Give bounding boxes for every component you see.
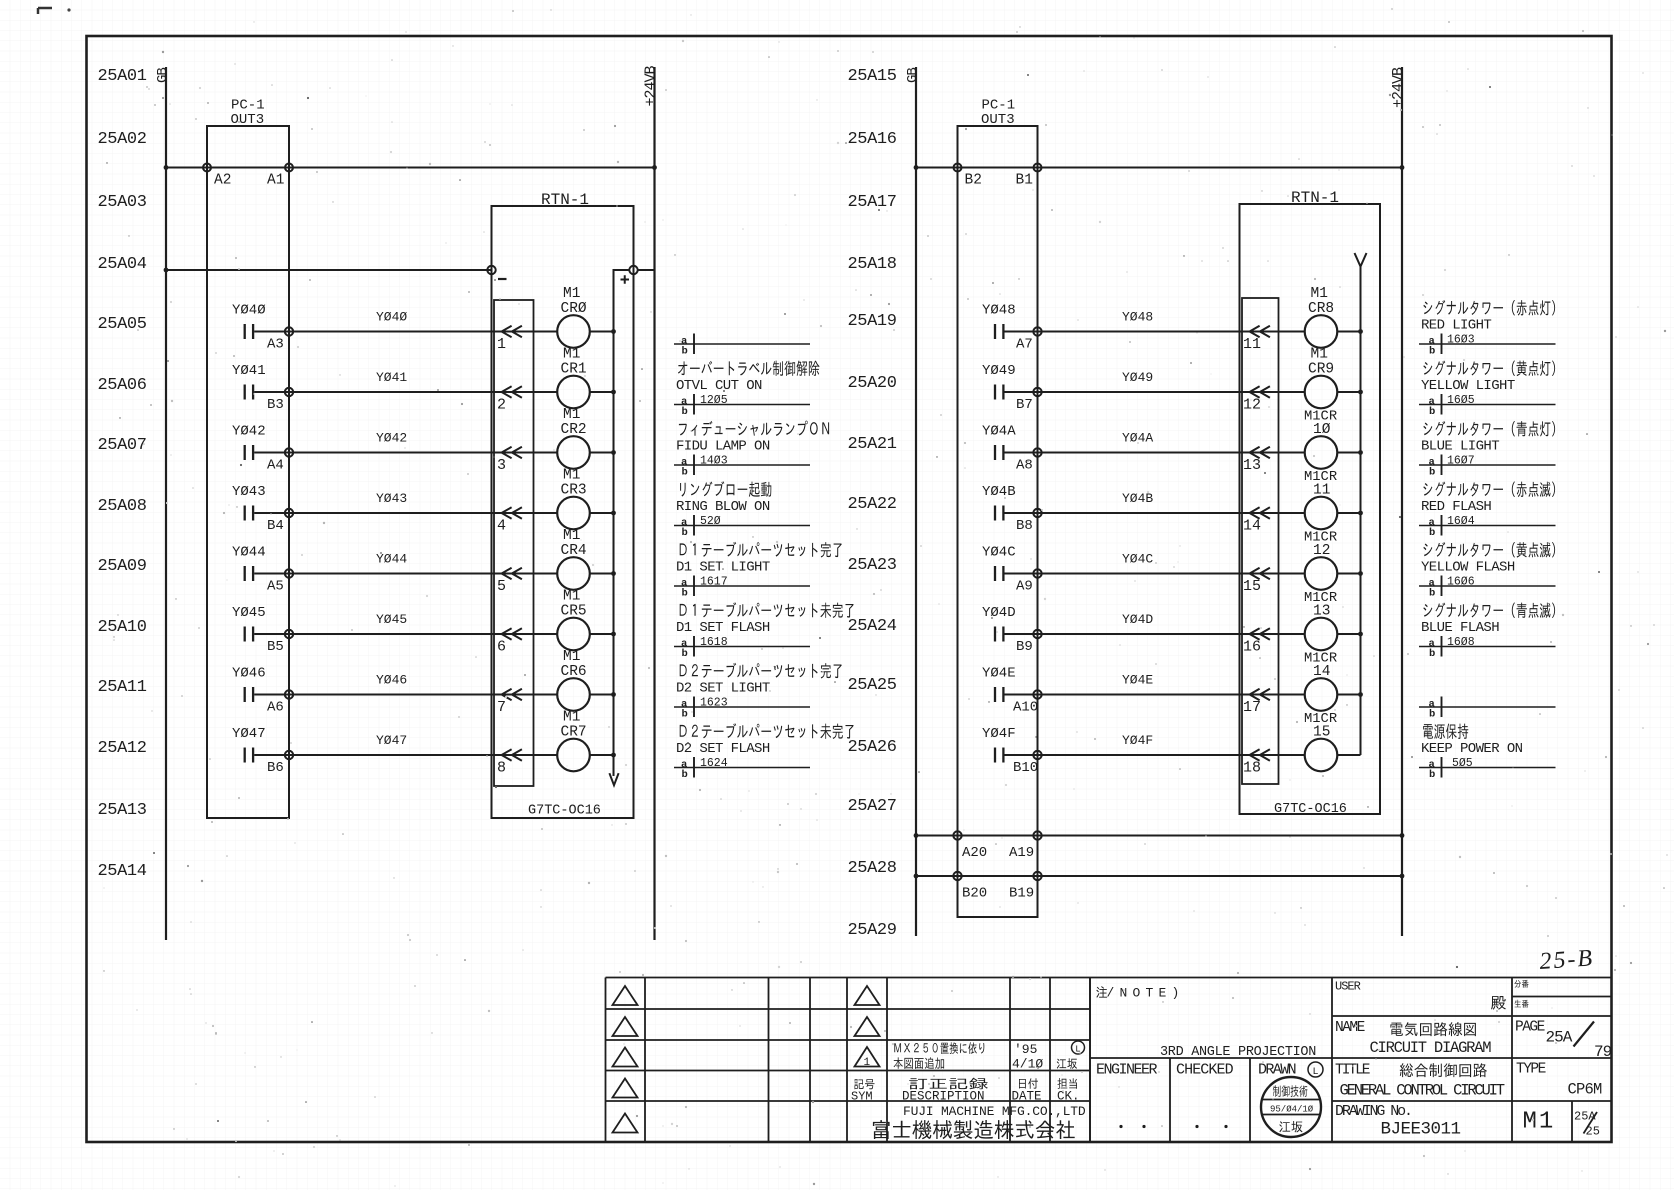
contact YØ4B right <box>995 506 1003 521</box>
junction <box>611 329 616 334</box>
relay coil CR4 M1 <box>557 557 590 590</box>
revision header SYM <box>854 1079 874 1089</box>
annotation block YELLOW FLASH <box>1419 542 1556 599</box>
svg-text:25A10: 25A10 <box>98 618 147 637</box>
junction <box>1358 632 1363 637</box>
svg-text:1624: 1624 <box>700 757 728 770</box>
svg-text:B9: B9 <box>1016 639 1033 655</box>
svg-text:M1: M1 <box>1311 347 1328 363</box>
annotation block blank <box>674 334 810 358</box>
svg-text:25A08: 25A08 <box>98 497 147 516</box>
arrow contact 11 <box>1250 326 1270 337</box>
svg-text:CP6M: CP6M <box>1568 1081 1603 1099</box>
relay unit RTN-1 right box <box>1240 204 1381 814</box>
svg-text:M1: M1 <box>1523 1109 1556 1136</box>
svg-text:CR4: CR4 <box>561 543 587 559</box>
revision triangles right column <box>855 986 880 1005</box>
svg-text:b: b <box>1429 708 1435 720</box>
svg-text:YØ41: YØ41 <box>232 363 266 379</box>
svg-text:OUT3: OUT3 <box>231 112 265 128</box>
svg-text:13: 13 <box>1243 457 1261 474</box>
relay coil CR13 M1 <box>1305 618 1338 651</box>
annotation block blank <box>1419 697 1556 721</box>
terminal B6 <box>285 751 293 759</box>
svg-text:25A24: 25A24 <box>848 617 897 636</box>
svg-text:16Ø6: 16Ø6 <box>1447 575 1475 588</box>
terminal B1 <box>1034 164 1042 172</box>
svg-text:USER: USER <box>1335 980 1361 994</box>
wire plus terminal to +24VB rail <box>638 269 655 271</box>
svg-text:1623: 1623 <box>700 696 728 709</box>
arrow contact 2 <box>502 386 522 397</box>
svg-text:25A20: 25A20 <box>848 374 897 393</box>
svg-text:25A02: 25A02 <box>98 130 147 149</box>
svg-text:NAME: NAME <box>1335 1020 1365 1036</box>
svg-text:M1: M1 <box>563 649 580 665</box>
svg-text:25A19: 25A19 <box>848 312 897 331</box>
svg-text:4/1Ø: 4/1Ø <box>1012 1057 1043 1072</box>
wire YØ4D row <box>1005 633 1305 635</box>
svg-text:b: b <box>682 406 688 418</box>
svg-text:12: 12 <box>1243 397 1261 414</box>
terminal B9 <box>1033 630 1041 638</box>
svg-text:A10: A10 <box>1013 700 1038 716</box>
contact Y045 left <box>245 627 253 642</box>
wire YØ4C row <box>1005 573 1305 575</box>
svg-text:25A23: 25A23 <box>848 556 897 575</box>
seiban cell <box>1515 1000 1529 1008</box>
svg-text:79: 79 <box>1594 1043 1612 1061</box>
annotation block RED LIGHT <box>1419 300 1556 357</box>
svg-text:BLUE LIGHT: BLUE LIGHT <box>1421 439 1499 455</box>
wire 25A02 output common row A <box>166 167 655 169</box>
svg-text:YØ46: YØ46 <box>232 666 266 682</box>
svg-text:25A07: 25A07 <box>98 436 147 455</box>
revision row 1 CK <box>1072 1041 1085 1054</box>
contact YØ4F right <box>995 748 1003 763</box>
power rail GB left <box>165 67 167 940</box>
contact Y040 left <box>245 324 253 339</box>
svg-text:15: 15 <box>1243 578 1261 595</box>
contact YØ48 right <box>995 324 1003 339</box>
svg-text:YØ4E: YØ4E <box>1122 673 1153 688</box>
svg-text:D2 SET LIGHT: D2 SET LIGHT <box>676 681 770 697</box>
svg-text:25A09: 25A09 <box>98 557 147 576</box>
svg-text:16Ø3: 16Ø3 <box>1447 333 1475 346</box>
svg-text:+24VB: +24VB <box>1390 67 1407 108</box>
junction <box>611 753 616 758</box>
svg-text:A19: A19 <box>1009 845 1034 861</box>
wire coil to plus bus <box>1337 754 1360 756</box>
contact Y041 left <box>245 385 253 400</box>
svg-text:CRØ: CRØ <box>561 301 587 317</box>
relay coil CR6 M1 <box>557 678 590 711</box>
junction <box>611 450 616 455</box>
svg-text:DATE: DATE <box>1012 1090 1042 1104</box>
svg-text:YØ4A: YØ4A <box>982 424 1016 440</box>
terminal B10 <box>1033 751 1041 759</box>
wire coil to plus bus <box>1337 331 1360 333</box>
wire Y046 row <box>254 694 557 696</box>
wire coil to plus bus <box>590 694 614 696</box>
terminal A2 <box>203 164 211 172</box>
terminal A6 <box>285 690 293 698</box>
relay coil CR3 M1 <box>557 497 590 530</box>
svg-text:OTVL CUT ON: OTVL CUT ON <box>676 378 762 394</box>
relay coil CR1 M1 <box>557 376 590 409</box>
svg-text:M1: M1 <box>563 589 580 605</box>
svg-text:YØ45: YØ45 <box>376 612 407 627</box>
svg-text:YØ48: YØ48 <box>1122 310 1153 325</box>
svg-text:A3: A3 <box>267 337 284 353</box>
svg-text:25A22: 25A22 <box>848 495 897 514</box>
svg-text:YØ4Ø: YØ4Ø <box>376 310 407 325</box>
annotation block BLUE LIGHT <box>1419 421 1556 478</box>
svg-text:YØ43: YØ43 <box>232 484 266 500</box>
svg-text:1618: 1618 <box>700 636 728 649</box>
svg-text:25A13: 25A13 <box>98 801 147 820</box>
wire coil to plus bus <box>1337 694 1360 696</box>
arrow contact 6 <box>502 628 522 639</box>
svg-text:A20: A20 <box>962 845 987 861</box>
svg-text:RING BLOW ON: RING BLOW ON <box>676 499 770 515</box>
wire coil to plus bus <box>1337 391 1360 393</box>
svg-text:RED LIGHT: RED LIGHT <box>1421 318 1491 334</box>
wire YØ4B row <box>1005 512 1305 514</box>
svg-text:15: 15 <box>1313 725 1330 741</box>
svg-text:25: 25 <box>1586 1125 1600 1139</box>
svg-text:14: 14 <box>1243 518 1261 535</box>
svg-text:1617: 1617 <box>700 575 728 588</box>
arrow contact 16 <box>1250 628 1270 639</box>
svg-text:1: 1 <box>497 336 506 353</box>
svg-text:YØ49: YØ49 <box>982 363 1016 379</box>
terminal B8 <box>1033 509 1041 517</box>
svg-text:CR1: CR1 <box>561 362 587 378</box>
junction <box>1358 571 1363 576</box>
svg-text:25A15: 25A15 <box>848 67 897 86</box>
arrow contact 18 <box>1250 749 1270 760</box>
wire coil to plus bus <box>590 633 614 635</box>
svg-text:2: 2 <box>497 397 506 414</box>
svg-text:A4: A4 <box>267 458 284 474</box>
svg-text:25A29: 25A29 <box>848 921 897 940</box>
terminal A5 <box>285 569 293 577</box>
terminal B7 <box>1033 388 1041 396</box>
power rail GB right <box>915 67 917 936</box>
svg-text:L: L <box>1313 1067 1319 1078</box>
connector PC-1 OUT3 left box <box>207 126 289 818</box>
annotation block OTVL CUT ON <box>674 361 820 418</box>
junction <box>1358 450 1363 455</box>
svg-text:25A11: 25A11 <box>98 678 147 697</box>
wire Y047 row <box>254 754 557 756</box>
svg-text:GB: GB <box>905 68 921 83</box>
terminal A1 <box>285 164 293 172</box>
svg-text:b: b <box>682 466 688 478</box>
wire coil to plus bus <box>590 573 614 575</box>
wire coil to plus bus <box>590 331 614 333</box>
row labels 25A01-25A14 <box>98 67 147 881</box>
revision table right grid <box>606 978 1612 1143</box>
relay coil CR2 M1 <box>557 436 590 469</box>
svg-text:CK.: CK. <box>1057 1090 1080 1104</box>
terminal A9 <box>1033 569 1041 577</box>
svg-text:12: 12 <box>1313 543 1330 559</box>
contact YØ4D right <box>995 627 1003 642</box>
svg-text:D2 SET FLASH: D2 SET FLASH <box>676 741 770 757</box>
svg-text:25-B: 25-B <box>1539 945 1595 975</box>
arrow contact 14 <box>1250 507 1270 518</box>
svg-text:25A: 25A <box>1546 1029 1573 1047</box>
svg-text:D1 SET LIGHT: D1 SET LIGHT <box>676 560 770 576</box>
svg-text:CR5: CR5 <box>561 604 587 620</box>
junction <box>611 511 616 516</box>
svg-text:FUJI MACHINE MFG.CO.,LTD: FUJI MACHINE MFG.CO.,LTD <box>903 1104 1086 1119</box>
svg-text:b: b <box>1429 648 1435 660</box>
svg-text:BJEE3011: BJEE3011 <box>1381 1120 1461 1140</box>
relay coil CR11 M1 <box>1305 497 1338 530</box>
wire coil to plus bus <box>590 754 614 756</box>
wire YØ49 row <box>1005 391 1305 393</box>
relay coil CR14 M1 <box>1305 678 1338 711</box>
continuation arrow V top right <box>1355 253 1367 267</box>
svg-text:GENERAL CONTROL CIRCUIT: GENERAL CONTROL CIRCUIT <box>1340 1082 1505 1100</box>
svg-text:25A: 25A <box>1574 1110 1596 1124</box>
contact YØ4A right <box>995 445 1003 460</box>
svg-text:B3: B3 <box>267 397 284 413</box>
svg-text:b: b <box>1429 466 1435 478</box>
svg-text:B1: B1 <box>1016 173 1033 189</box>
contact Y043 left <box>245 506 253 521</box>
svg-text:CHECKED: CHECKED <box>1176 1062 1234 1079</box>
terminal B19 <box>1033 872 1041 880</box>
svg-text:YELLOW LIGHT: YELLOW LIGHT <box>1421 378 1515 394</box>
svg-text:5: 5 <box>497 578 506 595</box>
wire YØ4F row <box>1005 754 1305 756</box>
svg-text:25A18: 25A18 <box>848 255 897 274</box>
svg-text:YØ4C: YØ4C <box>982 545 1016 561</box>
svg-text:17: 17 <box>1243 699 1261 716</box>
svg-text:25A05: 25A05 <box>98 315 147 334</box>
svg-text:1: 1 <box>864 1057 871 1069</box>
svg-text:YØ4F: YØ4F <box>1122 733 1153 748</box>
wire Y043 row <box>254 512 557 514</box>
wire Y044 row <box>254 573 557 575</box>
svg-text:A8: A8 <box>1016 458 1033 474</box>
wire coil to plus bus <box>1337 573 1360 575</box>
svg-text:M1: M1 <box>563 710 580 726</box>
revision header DESCRIPTION <box>909 1078 988 1090</box>
wire A20-A19 feed <box>916 835 1402 837</box>
svg-text:A1: A1 <box>267 173 284 189</box>
svg-text:B6: B6 <box>267 760 284 776</box>
svg-text:b: b <box>682 345 688 357</box>
svg-text:A9: A9 <box>1016 579 1033 595</box>
driver block box left <box>494 300 534 786</box>
svg-text:11: 11 <box>1313 483 1330 499</box>
contact YØ4C right <box>995 566 1003 581</box>
svg-text:YØ42: YØ42 <box>232 424 266 440</box>
relay coil CR9 M1 <box>1305 376 1338 409</box>
svg-text:3RD ANGLE PROJECTION: 3RD ANGLE PROJECTION <box>1160 1045 1316 1060</box>
terminal A7 <box>1033 327 1041 335</box>
revision table left grid <box>606 978 848 1143</box>
svg-text:YØ4D: YØ4D <box>1122 612 1153 627</box>
title block grid <box>1090 978 1612 1143</box>
connector PC-1 OUT3 right box <box>958 126 1038 917</box>
svg-text:95/Ø4/1Ø: 95/Ø4/1Ø <box>1270 1105 1314 1115</box>
wire B20-B19 feed <box>916 875 1402 877</box>
svg-text:6: 6 <box>497 639 506 656</box>
relay unit RTN-1 left box <box>492 206 634 818</box>
svg-text:B8: B8 <box>1016 518 1033 534</box>
svg-text:M1: M1 <box>563 528 580 544</box>
svg-text:25A26: 25A26 <box>848 738 897 757</box>
wire coil to plus bus <box>1337 633 1360 635</box>
svg-text:YØ45: YØ45 <box>232 605 266 621</box>
wire coil to plus bus <box>590 452 614 454</box>
svg-text:YØ4Ø: YØ4Ø <box>232 303 266 319</box>
svg-text:b: b <box>1429 406 1435 418</box>
svg-text:M1: M1 <box>563 407 580 423</box>
svg-text:DRAWING No.: DRAWING No. <box>1335 1103 1411 1120</box>
svg-text:KEEP POWER ON: KEEP POWER ON <box>1421 741 1523 757</box>
bunban cell <box>1514 980 1528 988</box>
relay coil CR12 M1 <box>1305 557 1338 590</box>
arrow contact 17 <box>1250 689 1270 700</box>
svg-text:YELLOW FLASH: YELLOW FLASH <box>1421 560 1515 576</box>
svg-text:14: 14 <box>1313 664 1330 680</box>
junction <box>1358 390 1363 395</box>
junction <box>611 692 616 697</box>
svg-text:M1: M1 <box>1311 286 1328 302</box>
svg-text:YØ43: YØ43 <box>376 491 407 506</box>
revision row 1 description <box>894 1042 984 1054</box>
wire coil to plus bus <box>590 391 614 393</box>
svg-text:YØ47: YØ47 <box>232 726 266 742</box>
svg-text:+24VB: +24VB <box>643 65 660 106</box>
svg-text:25A17: 25A17 <box>848 193 897 212</box>
svg-text:B7: B7 <box>1016 397 1033 413</box>
svg-text:M1: M1 <box>563 347 580 363</box>
svg-text:5Ø5: 5Ø5 <box>1452 757 1473 770</box>
wire 25A16 output common row B <box>916 167 1402 169</box>
svg-text:b: b <box>682 527 688 539</box>
svg-text:RTN-1: RTN-1 <box>541 191 589 209</box>
svg-text:B5: B5 <box>267 639 284 655</box>
svg-text:YØ41: YØ41 <box>376 370 407 385</box>
relay coil CR5 M1 <box>557 618 590 651</box>
relay coil CR7 M1 <box>557 739 590 772</box>
arrow contact 7 <box>502 689 522 700</box>
svg-text:PAGE: PAGE <box>1515 1020 1545 1036</box>
svg-text:16Ø8: 16Ø8 <box>1447 636 1475 649</box>
svg-text:7: 7 <box>497 699 506 716</box>
svg-text:B19: B19 <box>1009 886 1034 902</box>
plus bus inside RTN-1 left <box>614 270 630 776</box>
svg-text:8: 8 <box>497 760 506 777</box>
svg-text:YØ42: YØ42 <box>376 431 407 446</box>
svg-text:M1: M1 <box>563 468 580 484</box>
svg-text:M1: M1 <box>563 286 580 302</box>
svg-text:b: b <box>1429 769 1435 781</box>
wire coil to plus bus <box>1337 452 1360 454</box>
svg-text:CR8: CR8 <box>1308 301 1334 317</box>
svg-text:D1 SET FLASH: D1 SET FLASH <box>676 620 770 636</box>
junction <box>1358 329 1363 334</box>
contact Y044 left <box>245 566 253 581</box>
svg-text:25A12: 25A12 <box>98 739 147 758</box>
svg-text:TITLE: TITLE <box>1335 1063 1370 1079</box>
svg-text:1Ø: 1Ø <box>1313 422 1331 438</box>
wire coil to plus bus <box>590 512 614 514</box>
junction <box>611 390 616 395</box>
annotation block D2 SET FLASH <box>674 723 854 781</box>
svg-text:25A14: 25A14 <box>98 862 147 881</box>
svg-text:CR2: CR2 <box>561 422 587 438</box>
annotation block YELLOW LIGHT <box>1419 361 1556 418</box>
annotation block RED FLASH <box>1419 482 1556 539</box>
wire Y041 row <box>254 391 557 393</box>
wire Y042 row <box>254 452 557 454</box>
svg-text:CR3: CR3 <box>561 483 587 499</box>
svg-text:14Ø3: 14Ø3 <box>700 454 728 467</box>
row labels 25A15-25A29 <box>848 67 897 940</box>
svg-text:11: 11 <box>1243 336 1261 353</box>
svg-text:b: b <box>682 769 688 781</box>
svg-text:YØ48: YØ48 <box>982 303 1016 319</box>
svg-text:GB: GB <box>155 68 171 83</box>
svg-text:25A28: 25A28 <box>848 859 897 878</box>
svg-text:YØ4D: YØ4D <box>982 605 1016 621</box>
relay coil CR8 M1 <box>1305 315 1338 348</box>
svg-text:YØ4F: YØ4F <box>982 726 1016 742</box>
annotation block FIDU LAMP ON <box>674 421 829 479</box>
terminal plus RTN-1 <box>629 266 637 274</box>
svg-text:CIRCUIT DIAGRAM: CIRCUIT DIAGRAM <box>1370 1039 1492 1057</box>
arrow contact 1 <box>502 326 522 337</box>
svg-text:52Ø: 52Ø <box>700 515 721 528</box>
scan mark top-left <box>38 8 52 14</box>
svg-text:DESCRIPTION: DESCRIPTION <box>902 1090 985 1104</box>
arrow contact 5 <box>502 568 522 579</box>
svg-text:25A25: 25A25 <box>848 676 897 695</box>
arrow contact 12 <box>1250 386 1270 397</box>
driver block box right <box>1242 298 1279 784</box>
svg-text:CR9: CR9 <box>1308 362 1334 378</box>
power rail +24VB left <box>653 67 655 940</box>
note cell <box>1096 986 1107 998</box>
svg-text:BLUE FLASH: BLUE FLASH <box>1421 620 1499 636</box>
svg-text:16Ø5: 16Ø5 <box>1447 394 1475 407</box>
relay coil CR15 M1 <box>1305 739 1338 772</box>
svg-text:13: 13 <box>1313 604 1330 620</box>
wire YØ48 row <box>1005 331 1305 333</box>
svg-text:25A27: 25A27 <box>848 797 897 816</box>
terminal B3 <box>285 388 293 396</box>
svg-text:RTN-1: RTN-1 <box>1291 189 1339 207</box>
svg-text:RED FLASH: RED FLASH <box>1421 499 1491 515</box>
svg-text:OUT3: OUT3 <box>981 112 1015 128</box>
contact YØ4E right <box>995 687 1003 702</box>
svg-text:3: 3 <box>497 457 506 474</box>
svg-text:16Ø4: 16Ø4 <box>1447 515 1475 528</box>
svg-text:FIDU LAMP ON: FIDU LAMP ON <box>676 439 770 455</box>
annotation block D2 SET LIGHT <box>674 663 842 721</box>
annotation block D1 SET LIGHT <box>674 542 842 600</box>
terminal A4 <box>285 448 293 456</box>
